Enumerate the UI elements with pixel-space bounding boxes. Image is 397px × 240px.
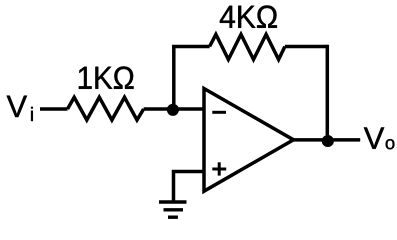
op-amp non-inverting input symbol (plus) xyxy=(212,162,226,175)
label Vo xyxy=(364,127,395,149)
label R1 value 1KOhm xyxy=(79,66,134,88)
wire feedback left segment xyxy=(172,45,210,49)
label Vi xyxy=(7,96,33,121)
wire Vi to R1 xyxy=(40,107,68,111)
resistor R2 4KOhm xyxy=(210,34,285,59)
wire non-inverting input to ground xyxy=(174,172,205,201)
label R2 value 4KOhm xyxy=(220,5,277,27)
resistor R1 1KOhm xyxy=(68,97,144,120)
junction node B (output node) xyxy=(322,135,334,147)
junction node A (inverting input node) xyxy=(167,104,179,116)
wire U1 output to node B xyxy=(291,138,327,142)
op-amp U1 xyxy=(204,89,294,192)
ground xyxy=(159,202,187,217)
wire R1 to node A xyxy=(144,107,173,111)
op-amp inverting input symbol (minus) xyxy=(212,111,226,114)
wire node A up to feedback line xyxy=(172,47,176,110)
wire node B to Vo xyxy=(327,138,360,142)
wire node A to op-amp inverting input xyxy=(173,107,204,111)
wire R2 to feedback right corner xyxy=(285,45,327,49)
wire feedback down to output node B xyxy=(326,45,330,140)
